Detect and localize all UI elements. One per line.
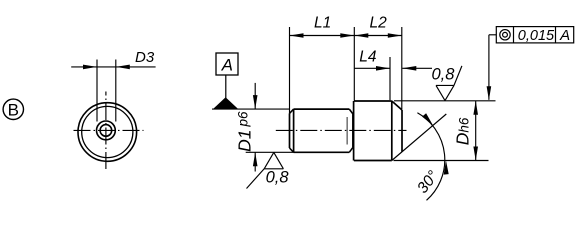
D3 dimension line: [71, 66, 155, 68]
D3 extension line right: [115, 60, 117, 122]
L2 arrow left: [354, 33, 368, 38]
head left face: [353, 101, 355, 161]
L2 right extension line / cone face extension: [401, 27, 403, 110]
shank top edge: [294, 108, 350, 110]
L4 dimension line: [354, 67, 390, 69]
surface finish top 0,8: [436, 66, 462, 101]
D3 arrow left: [83, 65, 97, 70]
shank right end edge: [352, 113, 354, 147]
centerline vertical front view: [105, 92, 107, 172]
L1 dimension line: [290, 35, 355, 37]
svg-text:0,8: 0,8: [432, 66, 456, 84]
30 arc arrow upper: [422, 113, 433, 125]
L4 right extension line: [389, 57, 391, 100]
D1 top extension line: [212, 108, 290, 110]
centerline horizontal front view: [73, 129, 144, 131]
svg-text:L2: L2: [370, 15, 388, 32]
surface finish bottom 0,8: [247, 152, 284, 188]
shank right chamfer bottom: [349, 148, 352, 153]
part centerline: [276, 129, 407, 131]
svg-text:B: B: [8, 101, 19, 120]
L4 arrow: [376, 66, 390, 71]
svg-text:D3: D3: [135, 49, 155, 66]
D1 upper arrow leader: [254, 83, 256, 109]
front view tip circle D3: [97, 121, 116, 140]
svg-text:0,8: 0,8: [266, 168, 290, 186]
svg-text:0,015: 0,015: [518, 28, 555, 44]
shank left chamfer top: [290, 109, 294, 113]
30 arc arrow lower: [444, 161, 449, 175]
D h6 top extension line: [394, 100, 496, 102]
D h6 dimension line: [475, 101, 477, 161]
runout tolerance frame: [496, 27, 573, 43]
head top edge: [354, 100, 392, 102]
svg-text:L4: L4: [359, 49, 377, 66]
L2 dimension line: [354, 35, 402, 37]
front view outer circle: [78, 103, 137, 162]
L2 arrow right: [388, 33, 402, 38]
shank chamfer edge: [293, 109, 295, 152]
view label B: [3, 99, 23, 119]
L2 left extension line: [353, 27, 355, 101]
shank relief edge thin: [346, 117, 348, 145]
svg-text:A: A: [559, 27, 570, 44]
concentricity symbol: [500, 30, 510, 40]
D3 extension line left: [96, 60, 98, 122]
head cylinder right edge: [391, 101, 393, 161]
svg-text:A: A: [221, 56, 233, 75]
head bottom edge: [354, 160, 392, 162]
datum A stem: [225, 75, 227, 98]
shank left face + L1 extension line: [289, 27, 291, 113]
D h6 bottom extension line: [394, 160, 489, 162]
head cone end face: [401, 110, 403, 152]
head cone bottom slant + 30deg construction line: [392, 114, 447, 161]
D3 arrow right: [116, 65, 130, 70]
front view tip chamfer circle: [100, 125, 112, 137]
datum A frame: [216, 53, 238, 75]
shank right chamfer top: [349, 109, 352, 114]
runout tolerance leader: [489, 34, 496, 36]
L1 arrow left: [290, 33, 304, 38]
D1 bottom extension line: [246, 151, 294, 153]
front view chamfer circle: [82, 106, 133, 157]
head cone top slant: [392, 101, 402, 110]
L4 outside arrow: [402, 66, 416, 71]
shank left chamfer bottom: [290, 148, 294, 152]
datum A triangle: [213, 97, 238, 108]
svg-text:L1: L1: [314, 15, 331, 32]
D1 lower arrow leader: [254, 152, 256, 171]
shank bottom edge: [294, 151, 350, 153]
30 degree dimension arc: [417, 113, 444, 201]
L1 arrow right: [340, 33, 354, 38]
